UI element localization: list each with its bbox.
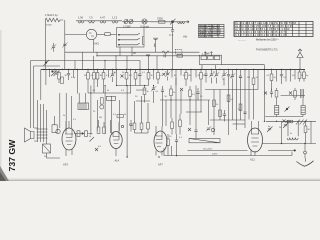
capacitor C2 (67, 74, 70, 75)
resistor R26 (179, 120, 182, 127)
wire (219, 90, 221, 121)
svg-text:AL4: AL4 (115, 159, 120, 163)
bottom-middle resistor columns (135, 96, 149, 133)
wire (73, 70, 75, 78)
svg-text:1,13: 1,13 (112, 15, 118, 19)
wire (99, 120, 105, 127)
wire (75, 61, 140, 70)
svg-text:2M: 2M (247, 77, 250, 79)
left connection box (52, 125, 57, 133)
capacitor C12 (223, 114, 226, 115)
resistor R8 (134, 73, 137, 80)
wire (97, 55, 200, 57)
wire (185, 70, 187, 87)
trimmer capacitor on resistor drop wire (62, 42, 67, 47)
coil bumps (78, 21, 84, 23)
wire (232, 70, 234, 121)
component circle (211, 128, 215, 132)
table text smudges (199, 24, 222, 38)
resistor R28 (294, 91, 297, 98)
wire (224, 110, 226, 122)
component box (117, 28, 145, 47)
scan left edge shading (0, 30, 2, 181)
resistor R14 (170, 89, 173, 96)
resistor R30 (239, 104, 242, 111)
svg-text:737 GW: 737 GW (7, 139, 17, 172)
wire (126, 86, 128, 158)
box under transformer (43, 144, 51, 153)
wire (170, 19, 176, 25)
wire (156, 126, 162, 156)
wire (153, 70, 155, 80)
svg-text:0,52 A: 0,52 A (214, 33, 221, 36)
wire (112, 70, 114, 83)
wire (188, 149, 248, 151)
band switch assembly (97, 34, 105, 36)
wire (195, 125, 197, 139)
trimmer capacitor CT3 (165, 72, 170, 77)
wire (68, 70, 70, 81)
second tier parts x130-210 (161, 90, 164, 91)
bottom-left dark smudge (0, 166, 9, 181)
resistor R10 (147, 73, 150, 80)
hatched IF transformer (78, 103, 89, 110)
mid horizontal lines (88, 92, 131, 94)
wire (262, 143, 316, 145)
wire (94, 70, 98, 94)
wire vertical from resistor down to bus (64, 20, 66, 70)
wire (58, 70, 60, 84)
svg-text:4,47: 4,47 (100, 15, 106, 19)
resistor R16 (252, 78, 255, 85)
wire (310, 121, 312, 143)
capacitor C6 (227, 75, 230, 76)
wire (167, 70, 169, 81)
capacitor C9 (129, 124, 132, 125)
wire (299, 70, 301, 82)
tube3 (154, 131, 167, 152)
wire (186, 111, 202, 113)
component circle (129, 20, 133, 24)
lines under tube (93, 51, 95, 53)
component box (177, 55, 183, 58)
component circle (126, 156, 127, 157)
component circle (121, 125, 123, 127)
svg-text:AZ1: AZ1 (250, 158, 255, 162)
wire (180, 88, 183, 91)
wire (130, 120, 132, 132)
wire (80, 103, 86, 110)
wire (116, 70, 118, 86)
svg-text:7,5: 7,5 (89, 15, 93, 19)
resistor R7 (125, 73, 128, 80)
capacitor C1 (171, 30, 174, 31)
wire (233, 123, 246, 125)
resistor R28 (227, 95, 230, 102)
resistor R22 (147, 123, 150, 130)
capacitor C11 (194, 130, 197, 131)
wire (47, 142, 61, 158)
wire (200, 70, 202, 88)
resistor R11 (157, 73, 160, 80)
wire (45, 70, 47, 86)
resistor R18 (298, 72, 301, 79)
wire (38, 100, 47, 127)
svg-text:AK2: AK2 (94, 42, 99, 46)
resistor R17 (270, 74, 273, 81)
wire (236, 70, 238, 131)
x-contact (289, 92, 292, 95)
far-left verticals to speaker area (31, 61, 34, 129)
wire (45, 20, 47, 70)
wire (189, 86, 191, 103)
resistor R24 (103, 127, 106, 134)
wire (48, 70, 50, 78)
wire (160, 99, 210, 101)
wire (110, 34, 116, 36)
wire (126, 70, 128, 87)
wire (205, 89, 258, 91)
wire (251, 134, 259, 146)
wire (175, 70, 177, 86)
diagonal trimmers right-lower (267, 127, 273, 133)
ZWF transformer assembly above bus (200, 55, 222, 64)
feed line to IF transformer (65, 51, 200, 53)
wire stub with node (154, 44, 156, 48)
resistor R25 (171, 122, 174, 129)
svg-text:— — —: — — — (238, 40, 247, 42)
svg-text:2.ZWF: 2.ZWF (123, 25, 131, 29)
wire (222, 64, 265, 66)
wire (118, 33, 140, 45)
resistor R20 (133, 123, 136, 130)
trimmer node between coils (286, 108, 288, 110)
resistor R29 (219, 110, 222, 117)
trimmer arrow (90, 137, 95, 142)
capacitor C7 (239, 76, 242, 77)
wire (299, 49, 301, 52)
wire (188, 128, 191, 131)
wire (70, 96, 72, 128)
oscillator tube circle (86, 29, 96, 39)
resistor R4 (93, 73, 96, 80)
resistor R5 (96, 73, 99, 80)
wire (288, 121, 298, 136)
parts right of tube3 (167, 139, 170, 146)
wire (205, 25, 218, 38)
diagonal stripes (296, 120, 307, 125)
svg-text:1M: 1M (100, 75, 103, 77)
vertical from var-cap with cap C2 (172, 22, 174, 30)
wire (281, 95, 306, 97)
variable cap dot-arrow (171, 21, 173, 23)
wire (268, 149, 296, 151)
trimmer capacitor CT5 (221, 72, 226, 77)
wire (103, 70, 105, 94)
wire (197, 88, 199, 101)
resistor (zigzag) top-left (45, 18, 63, 22)
resistor R12 (185, 73, 188, 80)
svg-text:C 2: C 2 (169, 33, 174, 37)
wire (167, 134, 169, 156)
wire (164, 146, 172, 156)
svg-text:50000: 50000 (46, 25, 53, 27)
wire (108, 70, 110, 78)
ZWF trimmer caps (122, 21, 150, 23)
wire (304, 144, 307, 162)
wire (223, 70, 225, 86)
wire (104, 86, 106, 135)
table A (199, 25, 225, 38)
component circle (43, 69, 44, 70)
wire (205, 70, 207, 83)
wire (190, 70, 192, 82)
wire (89, 21, 95, 23)
svg-text:3300: 3300 (157, 17, 163, 21)
table B (234, 22, 313, 37)
wire (135, 132, 149, 134)
wire (96, 100, 98, 131)
mains cord V (297, 161, 314, 167)
wire (195, 70, 197, 78)
lamp circle with X (142, 19, 147, 24)
wire (213, 90, 215, 136)
small parts near tube2 (77, 131, 80, 137)
wire (112, 21, 118, 23)
svg-text:Gesamt 255V: Gesamt 255V (199, 35, 214, 38)
resistor R3 (87, 73, 90, 80)
wire (43, 144, 51, 153)
wire (121, 75, 124, 78)
wire (171, 118, 173, 135)
svg-text:AF7: AF7 (158, 163, 163, 167)
resistor squiggle on line (162, 51, 169, 54)
wire horiz to tube (65, 34, 87, 36)
wire (34, 65, 61, 67)
trimmer cluster right of 210 (209, 72, 214, 77)
capacitor C8 (280, 75, 283, 76)
junction dots on bus (43, 21, 306, 158)
fuse + mains (304, 151, 307, 154)
svg-text:AF3: AF3 (63, 163, 68, 167)
svg-text:Meßwerte bei 220V ~: Meßwerte bei 220V ~ (256, 39, 279, 42)
wire (89, 33, 94, 36)
component circle (124, 20, 128, 24)
wire (212, 70, 217, 84)
resistor R21 (140, 123, 143, 130)
tube2 risers (111, 120, 120, 133)
wire (271, 70, 273, 91)
horizontal box (106, 96, 115, 100)
capacitor C4 (204, 74, 207, 75)
wire (85, 93, 87, 103)
wire (228, 70, 230, 85)
small parts on y55.8 line (146, 55, 150, 56)
small coil (178, 22, 185, 24)
capacitor C3 (138, 74, 141, 75)
x-contact lower (283, 120, 286, 123)
arrow end (187, 21, 190, 23)
wire (66, 121, 72, 156)
tube2 electrodes (113, 137, 120, 144)
component box (105, 33, 110, 36)
wire (179, 114, 181, 135)
svg-text:1M: 1M (99, 117, 102, 119)
wire (283, 123, 289, 129)
wire (202, 65, 216, 70)
wire (298, 49, 302, 51)
wire (100, 21, 106, 23)
contact circles (287, 120, 290, 123)
wire (241, 22, 307, 37)
capacitor C10 (175, 140, 178, 141)
resistor R27 (275, 91, 278, 98)
wire (157, 34, 173, 70)
wire (276, 70, 278, 82)
wire (117, 85, 149, 87)
wire (257, 70, 259, 90)
output IF coil right (301, 106, 305, 115)
junction node (52, 71, 54, 73)
wire (172, 31, 174, 33)
antenna right (299, 58, 301, 70)
wire (180, 70, 182, 76)
scan bottom edge shading (0, 179, 320, 182)
wire (118, 100, 120, 131)
wire (244, 70, 246, 129)
wire (144, 86, 146, 103)
wire (285, 70, 287, 82)
wire (251, 121, 259, 156)
wire (93, 40, 95, 52)
wire (31, 60, 141, 62)
wire (305, 121, 307, 143)
wire (54, 116, 56, 125)
wire with node (74, 133, 93, 135)
box+circle (100, 98, 103, 105)
component circle (100, 105, 104, 109)
long verticals to bottom section (163, 78, 202, 135)
svg-text:DC AK2 AF3 AF7 AL4 AZ1 1W 2W 3: DC AK2 AF3 AF7 AL4 AZ1 1W 2W 3W 4W 55 68 (235, 22, 297, 25)
wire (171, 70, 173, 78)
wire (87, 70, 89, 94)
wire (163, 73, 166, 76)
wire (294, 70, 296, 80)
wire (303, 70, 305, 82)
svg-text:PHONBETR.LTG.: PHONBETR.LTG. (256, 47, 279, 51)
trimmer capacitor CT6 (230, 73, 235, 78)
resistor R6 (102, 73, 105, 80)
wire (144, 28, 173, 29)
wire (156, 136, 163, 147)
svg-text:2M: 2M (84, 75, 87, 77)
wire (228, 84, 230, 135)
small circle + boxes above tube1/tube2 (56, 129, 60, 133)
svg-text:1,5kΩ 0,1µ: 1,5kΩ 0,1µ (45, 13, 58, 17)
wire (205, 52, 211, 56)
wire (143, 20, 147, 24)
wire (264, 65, 266, 70)
wire (199, 27, 225, 36)
wire (148, 70, 150, 86)
wire (234, 25, 313, 34)
wire (157, 70, 159, 85)
antenna input line (150, 21, 189, 23)
wire vertical with cap cluster (155, 39, 157, 52)
svg-text:Ua 250 220 240 250 100 0,5 12: Ua 250 220 240 250 100 0,5 12 46 80 2,4 … (235, 26, 294, 28)
wire (53, 43, 55, 52)
output transformer (38, 127, 47, 142)
tiny value labels sprinkled (44, 72, 311, 159)
svg-text:Ia 2,5 6,0 3,1 36 60 5,5 21 30: Ia 2,5 6,0 3,1 36 60 5,5 21 30 25 1,8 70 (235, 32, 288, 34)
wire (78, 93, 80, 103)
x-contact (95, 148, 98, 151)
component box (201, 56, 207, 60)
output IF coil left (275, 106, 279, 115)
trimmer capacitor CT4 (214, 72, 219, 77)
resistor box right of tube1 (85, 131, 88, 137)
wire (170, 86, 172, 103)
resistor R9 (143, 88, 146, 95)
svg-text:Hbf: Hbf (183, 35, 187, 39)
svg-text:V-Skala: V-Skala (140, 25, 149, 29)
right column parts: x-contact with node (264, 92, 267, 95)
svg-text:1.ZWF: 1.ZWF (202, 52, 210, 56)
wire (164, 155, 292, 157)
wire (51, 71, 57, 77)
wire (176, 134, 178, 156)
choke coil (287, 138, 298, 140)
speaker (25, 128, 35, 142)
resistor R23 (97, 127, 100, 134)
wire (34, 128, 38, 141)
trimmer on left wire (51, 44, 56, 49)
svg-text:Ug 100 105 110 90 85 1,2 45 82: Ug 100 105 110 90 85 1,2 45 82 60 3,6 40 (235, 29, 290, 31)
junction node (294, 150, 296, 152)
resistor R15 (189, 90, 192, 97)
wire (65, 134, 73, 145)
boxes right (117, 115, 124, 118)
trimmer capacitor CT2 (151, 86, 156, 91)
wire (290, 70, 292, 82)
svg-text:220V~: 220V~ (212, 154, 219, 156)
resistor R2 (58, 73, 61, 80)
wire (189, 139, 220, 143)
svg-text:110-240V: 110-240V (203, 148, 213, 150)
svg-text:1,96: 1,96 (78, 15, 84, 19)
svg-text:Ik 5,8 7,2 4,6 41 66 8,2 30 65: Ik 5,8 7,2 4,6 41 66 8,2 30 65 42 6,1 85 (235, 35, 288, 37)
dashed box on line (175, 49, 182, 54)
resistor R1 (61, 77, 64, 84)
wire (37, 129, 48, 138)
svg-text:1M: 1M (203, 75, 206, 77)
wire (130, 70, 132, 94)
capacitor C5 (196, 92, 199, 93)
resistor box on line (159, 20, 166, 23)
trimmer node with arrow (45, 62, 47, 64)
wire (135, 70, 137, 86)
wire (90, 86, 92, 136)
wire (248, 70, 250, 120)
above-bus verticals (83, 52, 149, 69)
wire (139, 70, 141, 86)
wire (281, 70, 283, 85)
coil chain line (76, 20, 122, 22)
wire (120, 47, 132, 56)
capacitor C20 (270, 92, 273, 93)
wire (204, 52, 212, 53)
tube1 (62, 128, 76, 150)
